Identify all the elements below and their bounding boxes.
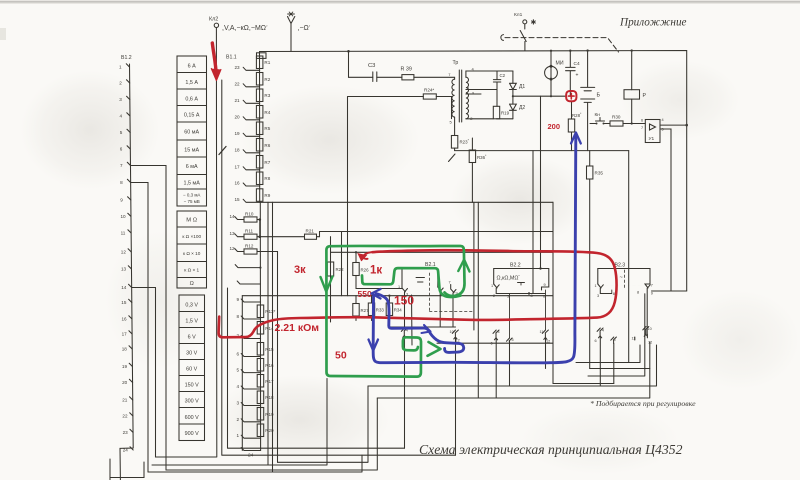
wire black rail under red jumper <box>331 251 554 253</box>
resistor R6 <box>256 139 263 152</box>
wire nest h472 <box>148 455 362 472</box>
node lower contacts 10/12 <box>452 330 458 339</box>
svg-text:6: 6 <box>543 295 545 299</box>
svg-text:Ω,кΩ,МΩ″: Ω,кΩ,МΩ″ <box>497 275 521 282</box>
wire nest h465 <box>152 379 327 466</box>
svg-text:16: 16 <box>235 181 241 186</box>
node 10 stub <box>237 281 260 284</box>
svg-text:9: 9 <box>544 283 546 287</box>
capacitor C4 <box>566 51 576 97</box>
svg-text:R12: R12 <box>245 244 254 249</box>
svg-text:3: 3 <box>237 401 240 406</box>
svg-text:1: 1 <box>237 433 240 438</box>
node bus contact 11 <box>128 230 131 233</box>
node 5 lower tap <box>241 370 260 373</box>
wire mid drops to wafer B2.2 <box>532 151 534 294</box>
svg-text:* Подбирается при регулировке: * Подбирается при регулировке <box>590 399 696 408</box>
wire drops x473 x478 <box>474 202 478 398</box>
svg-text:20: 20 <box>235 114 241 119</box>
wire node 9 long rail <box>242 295 553 297</box>
resistor R12 <box>244 249 257 254</box>
node B2.1 contact feet <box>402 288 408 328</box>
svg-text:20: 20 <box>122 380 128 385</box>
svg-text:6 А: 6 А <box>188 63 196 69</box>
svg-text:6 мА: 6 мА <box>186 164 198 170</box>
svg-text:3: 3 <box>119 97 122 102</box>
svg-text:12: 12 <box>230 246 236 251</box>
svg-text:Приложжние: Приложжние <box>619 17 687 29</box>
node current range label box <box>177 56 207 206</box>
svg-text:− 75 мВ: − 75 мВ <box>184 199 200 204</box>
svg-text:R9: R9 <box>264 193 270 198</box>
svg-text:22: 22 <box>122 414 128 419</box>
svg-text:к Ω × 1: к Ω × 1 <box>184 268 199 273</box>
capacitor C3 <box>373 72 377 82</box>
transformer Tr secondary winding <box>466 77 469 119</box>
wire upper chain conductor <box>259 52 261 203</box>
node antenna terminal -Ω <box>288 17 295 52</box>
relay P <box>631 51 633 90</box>
svg-text:1,5 А: 1,5 А <box>185 80 198 86</box>
wire nest h448 <box>228 288 405 448</box>
svg-text:R11: R11 <box>245 229 254 234</box>
svg-text:В1.2: В1.2 <box>121 55 132 61</box>
svg-text:7: 7 <box>120 163 123 168</box>
svg-text:~: ~ <box>620 275 623 281</box>
svg-text:R22: R22 <box>336 267 345 272</box>
resistor R11 <box>244 234 257 239</box>
svg-text:10: 10 <box>450 330 454 334</box>
svg-text:24: 24 <box>123 448 129 453</box>
wire C3 branch <box>349 51 455 79</box>
node B2.1 right contact 7/9 <box>451 285 456 328</box>
wire nest h386 <box>368 345 657 386</box>
node B2.3 lower contacts 10/11/12 <box>643 327 649 338</box>
svg-text:4: 4 <box>237 384 240 389</box>
resistor R19 <box>257 408 264 421</box>
resistor R1 <box>256 56 263 69</box>
wire nest v377 <box>166 398 377 470</box>
svg-text:8: 8 <box>120 180 123 185</box>
node B2.3 right feet <box>645 284 650 334</box>
node 1 lower tap <box>241 435 260 438</box>
component Kl1 switch contact <box>520 24 526 51</box>
svg-text:150: 150 <box>394 294 414 308</box>
node 21 chain tap <box>243 100 260 103</box>
node 16 chain tap <box>243 183 260 186</box>
node 6 lower tap <box>241 354 260 357</box>
resistor R34 <box>388 296 390 303</box>
svg-text:3: 3 <box>597 294 599 298</box>
wire rectifier mid rail to meter <box>513 95 566 97</box>
svg-text:0,3 V: 0,3 V <box>185 303 198 309</box>
svg-text:7: 7 <box>449 281 451 285</box>
svg-text:19: 19 <box>122 364 128 369</box>
node B2.2 lower contacts 11/12 <box>542 330 548 339</box>
wire R12 drop <box>257 252 278 463</box>
node bus contact 24 <box>130 447 133 450</box>
svg-text:21: 21 <box>235 98 241 103</box>
node B2.3 left feet <box>598 284 604 294</box>
svg-text:0,6 А: 0,6 А <box>185 96 198 102</box>
node bus contact 14 <box>129 284 132 287</box>
svg-text:15 мА: 15 мА <box>184 147 199 153</box>
node bus contact 19 <box>129 363 132 366</box>
svg-text:8: 8 <box>637 291 639 295</box>
svg-text:9: 9 <box>120 198 123 203</box>
node 19 chain tap <box>243 133 260 136</box>
wire nest h398 <box>377 342 650 398</box>
svg-text:8: 8 <box>613 292 615 296</box>
wire B2.2 drops <box>496 337 545 398</box>
wire U1 output <box>660 124 687 126</box>
svg-text:Схема электрическая принципи: Схема электрическая принципиальная Ц4352 <box>419 442 683 457</box>
svg-text:,V,A,−кΩ,−МΩ″: ,V,A,−кΩ,−МΩ″ <box>222 24 268 32</box>
resistor R24 <box>423 94 436 99</box>
svg-text:1: 1 <box>595 284 597 288</box>
svg-text:4: 4 <box>602 329 604 333</box>
resistor R30 <box>610 121 623 126</box>
node 18 stub <box>235 265 260 268</box>
svg-text:R2: R2 <box>264 77 270 82</box>
node 9 lower tap <box>241 299 260 302</box>
wire from bus node 8 down <box>131 183 148 473</box>
wire lower rail under transformer <box>455 150 629 152</box>
svg-text:R19: R19 <box>501 111 510 116</box>
resistor R26 <box>355 252 357 262</box>
svg-text:30 V: 30 V <box>186 351 197 357</box>
capacitor C2 <box>493 71 500 106</box>
svg-text:R26: R26 <box>361 268 370 273</box>
svg-text:0,15 А: 0,15 А <box>184 112 200 118</box>
wire pencil tick near 15mA <box>219 147 226 155</box>
node B1.2 switch bus <box>120 64 133 480</box>
svg-text:11: 11 <box>540 330 544 334</box>
wire relay drop <box>628 151 630 363</box>
diode D2 <box>510 104 517 119</box>
wire vertical left of lower chain <box>241 296 243 451</box>
svg-text:5: 5 <box>237 368 240 373</box>
resistor R22 <box>327 262 333 276</box>
svg-text:3к: 3к <box>294 264 306 276</box>
svg-text:1,5 V: 1,5 V <box>185 319 198 325</box>
wire under-blue rail <box>390 326 456 328</box>
wire mid vertical x341 <box>341 232 343 296</box>
wire secondary top tap to C2/D1 rail <box>466 71 513 77</box>
svg-text:22: 22 <box>235 81 241 86</box>
wire U1 pin5 drop <box>660 129 687 291</box>
wire frame around voltage box <box>156 288 217 458</box>
op-amp U1 <box>645 120 660 143</box>
resistor R28 <box>571 102 573 120</box>
svg-text:к Ω ×100: к Ω ×100 <box>182 234 201 239</box>
wire red arrow at Kl2 <box>212 43 216 74</box>
svg-text:R35: R35 <box>595 171 604 176</box>
resistor R17 <box>257 375 264 388</box>
node red circled-plus <box>566 91 576 101</box>
node bus contact 10 <box>128 213 131 216</box>
node 18 chain tap <box>243 150 260 153</box>
svg-text:13: 13 <box>230 231 236 236</box>
svg-text:15: 15 <box>121 300 127 305</box>
svg-text:2: 2 <box>237 417 240 422</box>
node bus contact 15 <box>129 299 132 302</box>
resistor R35 <box>589 151 591 166</box>
svg-text:2: 2 <box>119 81 122 86</box>
resistor R9 <box>256 189 263 202</box>
svg-text:3: 3 <box>507 295 509 299</box>
svg-text:60 мА: 60 мА <box>184 129 199 135</box>
resistor R13 <box>257 305 264 318</box>
wire long mid vertical x553 <box>552 202 554 383</box>
meter MI <box>550 51 552 67</box>
resistor R27 <box>355 296 357 304</box>
svg-text:16: 16 <box>122 317 128 322</box>
svg-text:18: 18 <box>122 347 128 352</box>
svg-text:Б: Б <box>597 93 601 99</box>
node Kl2 terminal <box>214 23 218 27</box>
node bus contact 13 <box>128 266 131 269</box>
svg-text:Д2: Д2 <box>519 105 525 111</box>
node 14 tap <box>235 217 244 220</box>
svg-text:Кл2: Кл2 <box>209 17 218 23</box>
node bus contact 12 <box>128 249 131 252</box>
svg-text:15: 15 <box>235 197 241 202</box>
wire R10-R11 link <box>259 220 261 237</box>
svg-text:150 V: 150 V <box>185 383 199 389</box>
resistor R15 <box>257 343 264 356</box>
svg-text:8: 8 <box>531 294 533 298</box>
node bus contact 7 <box>127 162 130 165</box>
svg-text:8: 8 <box>237 314 240 319</box>
svg-text:5: 5 <box>120 130 123 135</box>
svg-text:R21: R21 <box>306 229 315 234</box>
resistor R3 <box>256 89 263 102</box>
svg-text:13: 13 <box>121 267 127 272</box>
wire B2.3 drops <box>600 336 635 386</box>
svg-text:R8: R8 <box>264 176 270 181</box>
wire rectifier bottom rail <box>497 118 513 120</box>
node bus contact 2 <box>127 80 130 83</box>
svg-text:200: 200 <box>548 122 561 131</box>
svg-text:В2.2: В2.2 <box>510 263 521 269</box>
svg-text:60 V: 60 V <box>186 367 197 373</box>
svg-text:R7: R7 <box>264 160 270 165</box>
svg-text:R5: R5 <box>264 126 270 131</box>
resistor R20 <box>257 424 264 437</box>
wire green loop <box>330 246 465 296</box>
wire green arrowhead up <box>458 260 469 272</box>
node bus contact 4 <box>127 113 130 116</box>
resistor R39 <box>402 75 414 80</box>
node 2 lower tap <box>241 419 260 422</box>
wire rail under blue <box>437 342 553 344</box>
wire red loop annotation <box>219 250 617 337</box>
svg-text:R6: R6 <box>264 143 270 148</box>
svg-text:10: 10 <box>121 214 127 219</box>
svg-text:М Ω: М Ω <box>186 218 197 224</box>
svg-text:Ω: Ω <box>190 281 194 287</box>
svg-text:4: 4 <box>498 330 500 334</box>
wire B2.1 left foot drop <box>411 295 414 345</box>
svg-text:9: 9 <box>651 292 653 296</box>
svg-text:В1.1: В1.1 <box>226 55 237 61</box>
svg-text:R 39: R 39 <box>401 67 412 73</box>
svg-text:14: 14 <box>230 214 236 219</box>
component fuse <box>257 53 267 59</box>
wire main top bus <box>260 51 687 292</box>
wire nest h455 <box>222 80 456 455</box>
wire secondary taps <box>466 90 497 95</box>
resistor R5 <box>256 122 263 135</box>
svg-text:600 V: 600 V <box>185 415 199 421</box>
wire R21 to right jog <box>317 232 554 237</box>
svg-text:МИ: МИ <box>556 61 564 67</box>
node bus contact 17 <box>129 331 132 334</box>
node bus contact 9 <box>128 197 131 200</box>
wire green arrowhead right <box>428 342 441 356</box>
svg-text:+: + <box>576 73 579 79</box>
svg-text:1,5 мА: 1,5 мА <box>184 180 201 186</box>
node voltage range label box <box>179 295 205 441</box>
svg-text:900 V: 900 V <box>185 431 199 437</box>
svg-text:9: 9 <box>237 297 240 302</box>
node bus contact 21 <box>130 397 133 400</box>
node lower contacts 4 <box>401 328 407 337</box>
node bus contact 3 <box>127 96 130 99</box>
wire R26 bottom rail to wafer B2.1 <box>356 288 402 290</box>
node 17 chain tap <box>243 167 260 170</box>
node 8 lower tap <box>241 316 260 319</box>
svg-text:1: 1 <box>119 65 122 70</box>
node 23 chain tap <box>243 67 260 70</box>
wire from bus node 14 to range-box frame <box>132 287 156 289</box>
svg-text:18: 18 <box>235 147 241 152</box>
resistor R8 <box>256 172 263 185</box>
node 3 lower tap <box>241 403 260 406</box>
resistor R19a <box>493 106 499 119</box>
svg-text:50: 50 <box>335 350 347 362</box>
svg-text:1: 1 <box>398 285 400 289</box>
wire primary bottom lead <box>454 117 456 135</box>
svg-text:Кн: Кн <box>595 112 601 118</box>
svg-text:6: 6 <box>120 147 123 152</box>
svg-text:12: 12 <box>121 250 127 255</box>
svg-text:6: 6 <box>595 339 597 343</box>
svg-text:R34: R34 <box>394 308 403 313</box>
node 22 chain tap <box>243 84 260 87</box>
node 12 tap <box>235 249 244 252</box>
node bus contact 18 <box>129 346 132 349</box>
resistor R14 <box>257 322 264 335</box>
svg-text:− 0,3 мА: − 0,3 мА <box>183 193 200 198</box>
resistor R18 <box>257 391 264 404</box>
svg-text:23: 23 <box>123 430 129 435</box>
svg-text:300 V: 300 V <box>185 399 199 405</box>
resistor R4 <box>256 106 263 119</box>
svg-text:6 V: 6 V <box>188 335 196 341</box>
wire nest right h362/h376/h383 <box>576 345 640 363</box>
svg-text:R24*: R24* <box>424 88 434 93</box>
svg-text:550: 550 <box>358 289 372 299</box>
resistor R10 <box>244 217 257 222</box>
wire bottom-left stub box <box>110 459 144 480</box>
resistor R16 <box>257 359 264 372</box>
svg-text:11: 11 <box>121 231 126 236</box>
svg-text:Кл1: Кл1 <box>514 12 523 18</box>
node bus contact 16 <box>129 316 132 319</box>
node resistance range label box <box>177 211 207 288</box>
wire green arrowhead down <box>321 277 333 292</box>
wire R22 branch <box>330 237 332 322</box>
wire dashed link from Kl1 <box>505 38 619 52</box>
node bus contact 22 <box>130 413 133 416</box>
svg-text:В2.3: В2.3 <box>615 263 626 269</box>
svg-text:1: 1 <box>491 284 493 288</box>
transformer core <box>459 70 461 122</box>
battery B <box>581 51 595 151</box>
node bus contact 5 <box>127 129 130 132</box>
resistor R7 <box>256 156 263 169</box>
node Kl1 terminal <box>523 20 527 24</box>
diode D1 <box>510 71 517 104</box>
wire mid vertical drops <box>267 202 269 465</box>
resistor R2 <box>256 73 263 86</box>
resistor R33 <box>371 296 373 303</box>
svg-text:Тр: Тр <box>453 60 459 66</box>
svg-text:6: 6 <box>237 352 240 357</box>
node B2.2 lower contacts 4/6/5 <box>493 330 499 340</box>
svg-text:1к: 1к <box>370 265 382 277</box>
svg-text:6: 6 <box>641 119 643 123</box>
wire blue path B1 <box>376 294 464 353</box>
svg-text:Д1: Д1 <box>519 84 525 90</box>
svg-text:С4: С4 <box>574 61 580 67</box>
svg-text:R3: R3 <box>264 93 270 98</box>
svg-text:С2: С2 <box>500 73 506 78</box>
node 7 lower tap <box>241 336 260 339</box>
node 4 lower tap <box>241 386 260 389</box>
svg-text:4: 4 <box>662 118 664 122</box>
wire blue path B2 <box>373 137 576 363</box>
node bus contact 20 <box>129 379 132 382</box>
svg-text:7: 7 <box>651 284 653 288</box>
svg-text:✱: ✱ <box>531 19 537 27</box>
svg-text:R13*: R13* <box>265 309 275 314</box>
wire green wafer trace <box>362 268 461 297</box>
svg-text:R33: R33 <box>376 308 385 313</box>
wire right frame <box>652 290 672 292</box>
svg-text:У1: У1 <box>649 136 655 142</box>
node bus contact 8 <box>127 179 130 182</box>
svg-text:R30: R30 <box>612 115 621 120</box>
svg-text:21: 21 <box>122 398 128 403</box>
svg-text:2.21 кОм: 2.21 кОм <box>275 322 320 334</box>
node bus contact 23 <box>130 429 133 432</box>
svg-text:17: 17 <box>122 332 128 337</box>
svg-text:19: 19 <box>235 131 241 136</box>
svg-text:23: 23 <box>235 65 241 70</box>
svg-text:R4: R4 <box>264 110 270 115</box>
svg-text:17: 17 <box>235 164 241 169</box>
svg-text:14: 14 <box>121 285 127 290</box>
wire from bus node 7 down <box>131 166 167 471</box>
node bus contact 6 <box>127 146 130 149</box>
svg-text:R10: R10 <box>245 212 254 217</box>
wire contact drops <box>405 336 456 455</box>
node 13 tap <box>235 234 244 237</box>
resistor R23 <box>451 136 457 149</box>
